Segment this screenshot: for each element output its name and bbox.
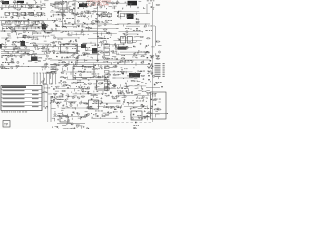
wire [15,56,17,58]
resistor R4 [28,5,32,6]
node N64 [4,61,7,64]
wire [8,6,10,9]
wire [113,73,115,75]
label [87,71,91,74]
wire [141,86,143,90]
capacitor C45 [75,45,78,46]
label [88,15,89,18]
label [45,72,49,75]
wire [122,25,124,27]
node N27 [99,24,102,27]
node N37 [136,33,139,36]
node N18 [35,23,38,26]
node N31 [17,33,20,36]
wire [64,100,67,102]
transistor Q99 [133,127,135,129]
resistor R99 [111,107,115,108]
ground [132,102,134,104]
wire [103,39,107,41]
ground [46,26,48,28]
ground [84,68,86,70]
node N52 [11,50,14,53]
wire [121,71,124,73]
wire [158,101,160,103]
label [13,1,15,4]
wire [99,105,115,107]
wire [67,34,86,36]
label [31,57,38,62]
wire [46,17,48,19]
wire [42,92,45,94]
wire [88,18,90,20]
label [91,21,92,24]
wire [59,51,63,53]
label [74,56,78,59]
wire [48,51,50,53]
wire [35,1,37,4]
capacitor C81 [101,102,104,103]
capacitor C83 [113,109,116,110]
label [62,114,63,117]
transistor Q12 [18,13,20,15]
wire [101,75,103,78]
wire [90,42,92,44]
label [124,67,127,70]
resistor R60 [28,61,32,62]
wire [31,15,35,17]
node N44 [63,43,66,46]
transistor Q35 [108,32,110,34]
wire [111,87,115,89]
transistor Q1 [14,1,16,3]
wire [95,113,97,115]
label [127,14,134,20]
capacitor C58 [72,68,75,69]
wire [118,11,120,14]
label [53,3,55,6]
wire [0,30,97,32]
transistor Q25 [77,20,79,22]
wire [92,94,94,97]
label [97,90,99,93]
label [53,98,66,101]
label [127,75,129,78]
gap [0,11,44,13]
node N8 [101,4,104,7]
wire [103,105,105,106]
label [72,107,76,110]
label [23,52,25,55]
wire [147,72,149,74]
wire [56,5,58,7]
wire [83,34,85,36]
wire [146,4,148,14]
label [51,97,56,100]
wire [83,59,85,60]
transistor Q14 [24,12,26,14]
ground [111,96,113,98]
label [121,87,128,90]
resistor R6 [66,8,70,9]
label [155,75,165,78]
wire [83,115,85,117]
wire [112,23,114,25]
label [51,95,53,98]
wire [105,52,108,54]
capacitor C920 [146,57,149,58]
resistor R68 [87,67,91,68]
resistor R10 [16,15,20,16]
label [44,52,50,55]
ground [117,74,119,76]
wire [113,40,142,42]
wire [33,36,35,39]
wire [15,1,17,4]
wire [62,23,150,25]
wire [21,43,24,45]
ground [98,75,100,77]
label [79,4,87,8]
resistor R31 [95,20,99,21]
ground [72,4,74,6]
wire [124,33,139,35]
label [43,105,48,108]
node N85 [75,85,78,88]
wire [54,65,57,67]
resistor R87 [62,90,66,91]
wire [34,55,36,57]
ground [98,106,100,108]
node N80 [122,77,125,80]
wire [36,33,38,34]
node N24 [80,24,83,27]
relay K1 [5,12,42,15]
wire [146,50,149,52]
node N51 [3,49,6,52]
label [137,83,139,86]
wire [85,88,87,89]
wire [17,21,19,24]
node N48 [113,44,116,47]
resistor R89 [115,96,119,97]
wire [76,104,78,106]
wire [52,117,55,119]
node N109 [51,126,54,129]
resistor R88 [81,96,85,97]
wire [83,43,86,45]
transistor Q59 [11,60,13,62]
label [77,81,84,84]
wire [73,63,75,66]
label [67,128,71,131]
wire [127,23,129,25]
label [155,62,165,65]
resistor R50 [105,58,109,59]
label [82,88,90,91]
wire [4,4,6,6]
resistor R52 [121,58,125,59]
node N29 [130,28,133,31]
connector pin [52,73,54,84]
wire [67,67,69,70]
capacitor C6 [85,3,88,4]
capacitor C70 [60,80,63,81]
label [155,64,165,67]
label [123,118,125,121]
wire [55,85,57,87]
wire [44,66,46,69]
resistor R42 [11,44,15,45]
wire [108,52,110,54]
wire [119,62,121,64]
wire [114,65,116,67]
table cell text [3,101,25,104]
capacitor C39 [97,36,100,37]
wire [23,25,26,27]
wire [66,71,96,73]
wire [107,65,109,66]
wire [71,118,73,120]
transistor Q901 [158,51,160,53]
ground [61,72,63,74]
transistor Q70 [121,72,123,74]
node N17 [11,20,14,23]
label [75,72,76,75]
node N106 [135,110,138,113]
transistor Q87 [110,106,112,108]
resistor R34 [22,35,26,36]
node N43 [52,46,55,49]
wire [108,82,112,84]
wire [80,116,82,119]
wire [136,41,138,42]
resistor R39 [146,38,150,39]
wire [91,105,93,107]
resistor R25 [32,24,36,25]
wire [67,94,69,97]
label [82,2,84,5]
resistor R78 [63,85,67,86]
wire [45,36,47,38]
wire [138,90,142,92]
wire [68,61,70,64]
ground [77,12,79,14]
capacitor C98 [134,122,137,123]
ground [45,107,47,109]
node N78 [104,76,107,79]
wire [15,51,18,53]
ground [140,43,142,45]
wire [93,33,117,35]
label [95,110,103,113]
wire [69,1,71,3]
red stamp line2 [87,3,109,7]
capacitor C3 [73,8,76,9]
wire [133,107,137,109]
transistor Q85 [79,102,81,104]
node N11 [47,10,50,13]
ground [86,6,88,8]
wire [64,115,66,117]
label [152,95,156,98]
wire [78,70,81,72]
label [66,56,73,59]
wire [21,51,23,52]
wire [80,88,82,89]
wire [26,41,29,43]
node N58 [91,56,94,59]
wire [22,53,25,55]
capacitor C65 [150,68,153,69]
wire [87,48,89,50]
wire [146,107,148,109]
wire [90,15,92,18]
wire [44,0,48,2]
label [151,93,155,96]
label [36,1,37,4]
capacitor C11 [40,14,43,15]
wire [109,6,112,8]
wire [75,47,77,51]
wire [60,83,62,84]
wire [113,66,115,68]
ground [144,110,146,112]
wire [10,11,13,13]
ground [100,103,102,105]
capacitor C38 [43,31,46,32]
wire [60,1,62,4]
wire [18,3,34,5]
label [7,40,9,43]
wire [58,65,60,67]
wire [151,2,153,122]
wire [80,84,82,86]
wire [133,85,147,87]
wire [18,32,22,34]
table header text [2,86,26,88]
wire [146,87,160,89]
ground [25,52,27,54]
wire [102,43,124,45]
ground [137,7,139,9]
wire [131,107,135,109]
wire [54,63,57,65]
wire [92,64,94,67]
svg-text:TP: TP [4,123,8,127]
wire [149,81,151,82]
wire [126,45,128,47]
wire [120,105,122,107]
label [131,80,138,83]
resistor R95 [87,107,91,108]
ground [107,111,109,113]
label [136,97,143,100]
resistor R15 [60,12,64,13]
label [42,66,50,69]
wire [82,77,86,79]
wire [119,31,143,33]
label [86,26,90,29]
wire [141,82,143,84]
wire [83,54,85,56]
transistor Q86 [90,106,92,108]
wire [54,4,59,6]
wire [93,75,95,77]
wire [36,53,38,55]
transistor Q95 [68,120,70,122]
label [98,25,100,28]
capacitor C44 [63,44,66,45]
wire [72,56,74,57]
wire [106,2,133,4]
transistor Q65 [142,61,144,63]
wire [92,44,94,46]
label [79,86,82,89]
wire [73,3,75,5]
label [135,52,139,55]
wire [104,5,106,7]
label [78,54,86,57]
wire [46,6,48,9]
wire [50,73,52,75]
wire [83,42,96,44]
node N60 [123,54,126,57]
wire [21,45,23,47]
wire [77,56,79,59]
wire [70,72,72,75]
wire [93,91,95,93]
wire [112,7,115,9]
ground [143,78,145,80]
resistor R27 [41,23,45,24]
capacitor C91 [80,117,83,118]
wire [67,114,69,116]
capacitor C19 [135,18,138,19]
node N19 [51,19,54,22]
wire [143,7,145,9]
resistor R93 [146,92,150,93]
wire [36,6,40,8]
resistor R75 [113,74,117,75]
ground [55,87,57,89]
wire [126,81,128,82]
wire [61,32,64,34]
ground [61,117,63,119]
node N67 [27,65,30,68]
wire [7,62,9,64]
IC U5 [131,111,142,120]
capacitor C921 [149,60,152,61]
ground [13,49,15,51]
label [12,41,19,44]
label [53,100,55,103]
resistor R97 [93,101,97,102]
transistor Q66 [62,71,64,73]
wire [155,53,157,56]
wire [1,53,28,55]
IC U9 [89,100,99,109]
wire [16,20,18,22]
capacitor C52 [17,51,20,52]
node N73 [132,66,135,69]
transistor Q69 [104,77,106,79]
wire [113,70,115,72]
wire [16,12,19,14]
label [31,42,36,45]
label [75,63,76,66]
wire [103,21,105,23]
label [75,77,76,80]
